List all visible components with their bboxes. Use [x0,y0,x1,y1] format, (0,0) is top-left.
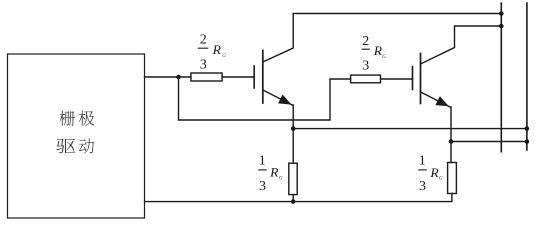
label R3 fraction bar [258,169,267,171]
IGBT Q2 body bar [420,54,422,104]
text 驱 [56,139,75,154]
IGBT Q1 collector wire to top rail [263,14,502,63]
junction dot bus A right end [525,126,530,131]
wire R2 to Q2 gate [381,78,413,80]
IGBT Q1 gate bar [253,66,255,88]
junction dot Q1 emitter node [291,126,296,131]
junction dot Q2 emitter node [449,139,454,144]
text 栅 (gate drive label) [59,111,75,126]
label R1 fraction bar [198,47,208,49]
emitter bus wire A (Q1 emitter to right bus) [293,128,527,130]
wire R1 to Q1 gate [222,76,254,78]
emitter bus wire B (Q2 emitter to right bus) [451,141,527,143]
right bus rail 2 (emitter bus) [526,3,528,150]
right bus rail 1 (collector bus) [500,3,502,152]
svg-text:3: 3 [259,179,266,194]
IGBT Q2 emitter wire [421,92,452,163]
IGBT Q1 body bar [262,51,264,104]
svg-text:R: R [429,165,438,180]
svg-text:G: G [222,54,226,59]
text 极 [79,111,95,126]
wire node to stage2 gate branch [179,77,351,120]
IGBT Q1 emitter wire [263,90,293,163]
bottom return wire to gate drive box [145,194,452,202]
junction dot Q2 collector at rail [499,24,504,29]
wire box output to node [145,76,191,78]
wire R3 bottom [292,195,294,202]
svg-text:2: 2 [362,34,369,49]
svg-text:3: 3 [419,179,426,194]
svg-text:1: 1 [259,154,266,169]
label R4 fraction bar [418,169,427,171]
svg-text:3: 3 [362,59,369,74]
IGBT Q2 collector wire to top rail [421,26,502,64]
svg-text:R: R [269,165,278,180]
resistor R3 1/3 Rg (stage1 emitter) [289,163,297,194]
svg-text:1: 1 [419,154,426,169]
svg-text:2: 2 [200,33,207,48]
label R2 fraction bar [362,48,370,50]
svg-text:G: G [279,176,283,181]
resistor R4 1/3 Rg (stage2 emitter) [448,163,457,194]
svg-text:3: 3 [200,58,207,73]
resistor R1 2/3 Rg (stage1 gate) [191,73,222,81]
IGBT Q1 emitter arrowhead [278,95,291,105]
svg-text:G: G [382,55,386,60]
junction dot at gate drive output node [176,75,181,80]
gate drive box [8,54,145,218]
svg-text:G: G [439,177,443,182]
junction dot bus B right end [525,139,530,144]
text 动 [79,138,94,153]
IGBT Q2 emitter arrowhead [435,96,448,106]
IGBT Q2 gate bar [412,67,414,90]
resistor R2 2/3 Rg (stage2 gate) [351,75,381,83]
svg-text:R: R [212,42,221,57]
junction dot R3 bottom at return wire [291,199,296,204]
svg-text:R: R [373,43,382,58]
junction dot Q1 collector at rail [499,11,504,16]
